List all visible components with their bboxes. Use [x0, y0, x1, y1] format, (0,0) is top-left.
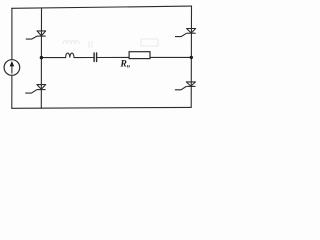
- wire right edge: [190, 6, 192, 107]
- node right junction: [190, 56, 193, 59]
- wire top edge: [12, 6, 192, 8]
- faint ghost marks: [63, 39, 158, 48]
- wire left inner branch: [40, 8, 42, 108]
- wire resistor to right branch: [150, 56, 191, 58]
- wire inductor to capacitor: [74, 57, 94, 59]
- thyristor VS4 (right bottom): [175, 82, 196, 90]
- wire bottom edge: [12, 106, 192, 109]
- wire middle left segment: [41, 57, 65, 59]
- thyristor VS3 (right top): [175, 29, 196, 37]
- current source I: [4, 60, 20, 76]
- thyristor VS1 (left top): [26, 31, 46, 39]
- resistor Rn box: [129, 52, 150, 59]
- capacitor C: [94, 53, 97, 62]
- wire left edge upper: [11, 8, 13, 59]
- wire left edge lower: [11, 75, 13, 108]
- inductor L: [66, 53, 74, 58]
- thyristor VS2 (left bottom): [25, 85, 45, 94]
- node left junction: [40, 56, 43, 59]
- wire capacitor to resistor: [97, 56, 130, 58]
